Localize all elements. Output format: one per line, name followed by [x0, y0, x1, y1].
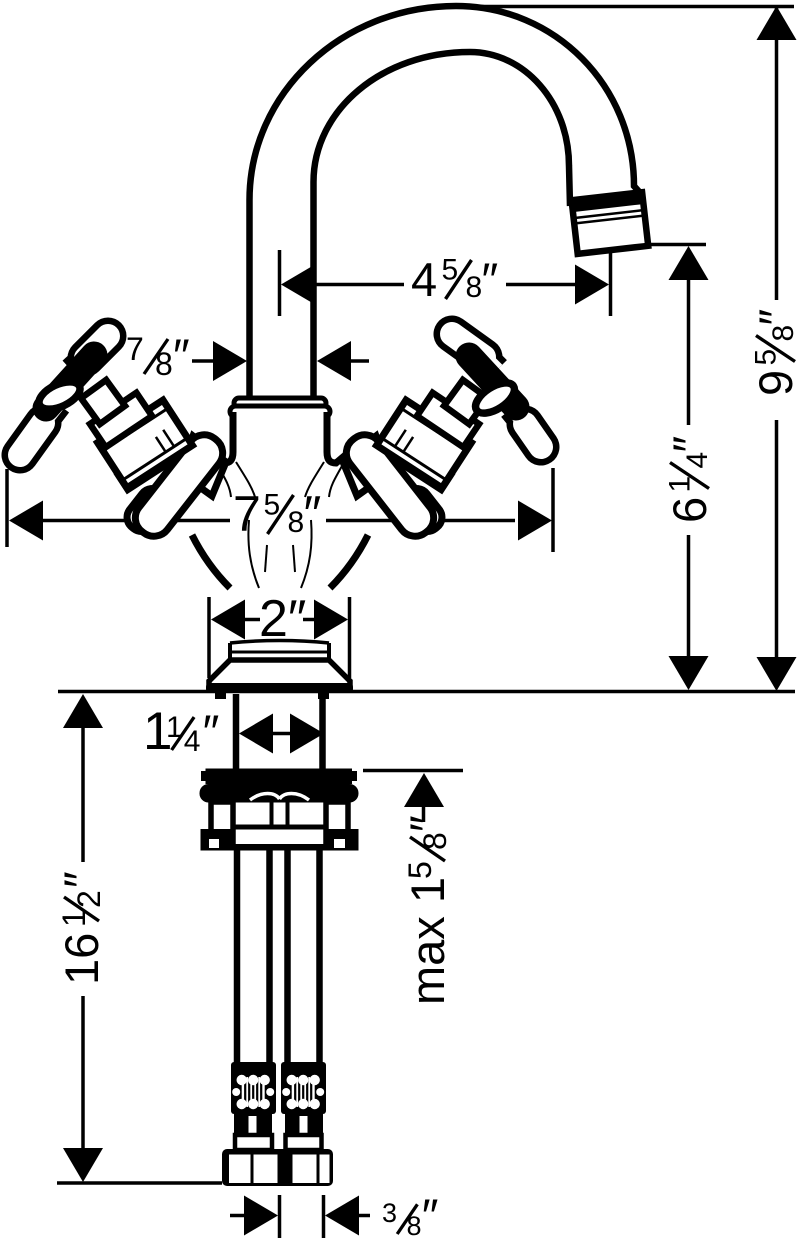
- svg-text:3: 3: [382, 1198, 397, 1228]
- valve tip nub: [122, 483, 172, 536]
- hex compression fittings: [222, 1149, 333, 1186]
- handle front arm (oval ring): [35, 376, 84, 415]
- svg-text:″: ″: [304, 486, 322, 542]
- 4 5/8 tick inside spout column: [278, 250, 282, 316]
- left valve assembly: [81, 380, 229, 543]
- mounting nut ring: [200, 784, 359, 803]
- svg-text:8: 8: [417, 832, 453, 850]
- braided connector right tube: [281, 1062, 326, 1114]
- right valve assembly (mirrored): [339, 380, 487, 543]
- top reference line at spout apex: [456, 5, 794, 9]
- valve connector cone to body: [180, 436, 226, 496]
- svg-text:8: 8: [767, 325, 800, 342]
- svg-text:9: 9: [749, 370, 800, 396]
- valve lower ring: [391, 442, 451, 490]
- 4 5/8 left arrow over spout: [281, 265, 315, 305]
- valve neck: [81, 380, 125, 424]
- svg-text:8: 8: [288, 506, 305, 539]
- valve neck: [444, 380, 488, 424]
- svg-text:7: 7: [126, 331, 144, 367]
- cross handle upper arm (right): [486, 359, 497, 370]
- mounting flange: [206, 769, 353, 785]
- 7/8 inch dimension: [192, 359, 216, 363]
- cross handle lower arm: [48, 404, 58, 417]
- base cap (escutcheon): [209, 660, 350, 690]
- 1 1/4 inch dimension: [239, 714, 273, 754]
- threaded shank: [233, 694, 240, 769]
- 4 5/8 inch dimension: [609, 247, 613, 316]
- valve cylinder: [98, 400, 193, 488]
- bottom reference line: [57, 1181, 222, 1185]
- svg-text:4: 4: [184, 725, 201, 758]
- svg-text:″: ″: [663, 436, 716, 453]
- handle hub (right): [469, 356, 516, 407]
- tube lower fittings: [234, 1112, 272, 1135]
- valve lower ring: [118, 442, 178, 490]
- svg-text:8: 8: [407, 1211, 422, 1241]
- 16 1/2 inch dimension line: [63, 694, 103, 728]
- svg-text:8: 8: [466, 271, 483, 304]
- svg-text:8: 8: [155, 346, 173, 382]
- max 1 5/8 inch reference line: [363, 769, 463, 773]
- spout aerator tip: [572, 192, 649, 254]
- svg-text:7: 7: [233, 486, 261, 542]
- 16 1/2 inch label (rotated): [54, 871, 108, 985]
- valve base flange: [128, 428, 229, 543]
- faucet body collar under column: [234, 398, 326, 408]
- svg-text:″: ″: [482, 253, 499, 306]
- supply tubes: [234, 850, 241, 1064]
- nut lugs: [201, 829, 235, 850]
- svg-text:5: 5: [402, 861, 438, 879]
- valve cylinder: [377, 400, 472, 488]
- spout outlet reference line: [644, 243, 706, 247]
- handle hub: [46, 355, 94, 408]
- svg-text:″: ″: [54, 871, 107, 888]
- braided connector left tube: [231, 1062, 276, 1114]
- handle front arm oval ring (right): [471, 377, 520, 419]
- svg-text:2: 2: [71, 890, 107, 908]
- svg-text:6: 6: [663, 497, 716, 523]
- valve tip nub: [397, 483, 447, 536]
- 6 1/4 inch dimension line: [687, 280, 691, 425]
- left handle: [20, 336, 108, 455]
- valve collar: [90, 393, 152, 448]
- valve collar: [417, 393, 479, 448]
- max 1 5/8 inch label (rotated): [400, 815, 454, 1005]
- 9 5/8 inch dimension line: [775, 8, 779, 300]
- 3/8 inch dimension: [230, 1214, 246, 1218]
- faucet body bell / trumpet: [178, 414, 382, 590]
- svg-text:″: ″: [173, 329, 190, 382]
- cross handle upper arm: [72, 360, 84, 371]
- svg-text:4: 4: [681, 452, 714, 469]
- svg-text:″: ″: [749, 309, 800, 326]
- 2 inch dimension: [207, 597, 211, 678]
- nut body: [211, 802, 233, 844]
- counter/mounting surface line: [58, 690, 795, 694]
- svg-text:max 1: max 1: [401, 877, 454, 1005]
- spout gooseneck tube: [250, 6, 649, 403]
- svg-text:4: 4: [411, 253, 437, 306]
- svg-text:″: ″: [422, 1189, 439, 1242]
- svg-text:″: ″: [203, 705, 220, 758]
- svg-text:16: 16: [55, 933, 108, 985]
- 7 5/8 inch dimension: [5, 469, 9, 547]
- svg-text:″: ″: [400, 815, 453, 832]
- flow lines inside trumpet: [218, 466, 231, 497]
- valve connector cone to body: [343, 436, 389, 496]
- valve base flange: [339, 428, 440, 543]
- 6 1/4 inch label (rotated): [663, 436, 716, 523]
- right handle: [452, 334, 541, 447]
- 9 5/8 inch label (rotated): [749, 309, 800, 396]
- cross handle lower arm (right): [512, 408, 521, 419]
